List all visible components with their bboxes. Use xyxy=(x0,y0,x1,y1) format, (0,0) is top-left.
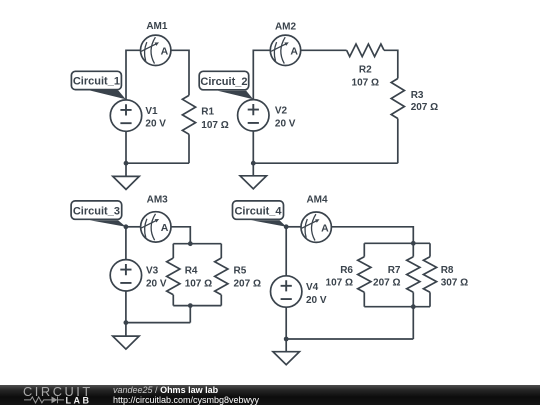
svg-text:A: A xyxy=(161,222,169,234)
svg-text:AM1: AM1 xyxy=(146,21,168,32)
wire: R5 top lead xyxy=(220,244,222,258)
wire: circuit1 ground stub xyxy=(125,163,127,176)
footer bar xyxy=(0,385,540,405)
wire: R7 bottom lead xyxy=(412,292,414,306)
wire: riser from bottom rail to circuit3 bottom wire xyxy=(189,306,191,323)
wire: R4 bottom lead xyxy=(172,295,174,306)
svg-text:Circuit_2: Circuit_2 xyxy=(200,76,247,88)
wire: R1 bottom lead xyxy=(188,134,190,163)
svg-text:Circuit_4: Circuit_4 xyxy=(234,205,282,217)
wire: V4 bottom lead xyxy=(285,307,287,339)
svg-text:107 Ω: 107 Ω xyxy=(326,278,353,289)
svg-text:Circuit_1: Circuit_1 xyxy=(73,76,120,88)
svg-text:20 V: 20 V xyxy=(306,295,327,306)
svg-text:AM4: AM4 xyxy=(306,195,328,206)
ammeter AM3 xyxy=(141,195,171,243)
svg-text:V1: V1 xyxy=(145,106,158,117)
resistor R2 (107 Ω) xyxy=(347,44,384,89)
svg-text:107 Ω: 107 Ω xyxy=(185,279,212,290)
wire: R2 right to corner down to R3 top xyxy=(384,50,398,78)
ammeter AM2 xyxy=(270,22,300,66)
wire: node to V4 top xyxy=(285,227,287,276)
footer text xyxy=(113,385,259,406)
junction: circuit2 bottom node xyxy=(251,161,256,166)
wire: AM1 right to top-right corner down to R1 top xyxy=(171,50,189,95)
junction: circuit4 parallel top node xyxy=(411,241,416,246)
ground (circuit 2) xyxy=(240,176,266,189)
wire: parallel top rail R6-R7-R8 xyxy=(364,242,430,244)
wire: V1 top to top-left corner to AM1 left xyxy=(126,50,141,100)
svg-text:V4: V4 xyxy=(306,282,319,293)
wire: R6 top lead xyxy=(363,243,365,256)
svg-text:R3: R3 xyxy=(411,90,424,101)
resistor R4 (107 Ω) xyxy=(167,258,212,295)
svg-text:107 Ω: 107 Ω xyxy=(352,78,379,89)
svg-text:V2: V2 xyxy=(275,106,288,117)
wire: R3 bottom lead xyxy=(397,119,399,164)
junction: circuit3 bottom-left node xyxy=(124,320,129,325)
ammeter AM4 xyxy=(301,195,331,243)
node label Circuit_3 xyxy=(71,201,126,227)
svg-text:R5: R5 xyxy=(234,265,247,276)
voltage source V4 (20 V) xyxy=(271,276,327,307)
svg-text:20 V: 20 V xyxy=(146,278,167,289)
wire: V3 bottom lead xyxy=(125,291,127,323)
wire: R4 top lead xyxy=(172,244,174,258)
svg-text:307 Ω: 307 Ω xyxy=(441,278,468,289)
ground (circuit 4) xyxy=(273,352,299,365)
svg-text:207 Ω: 207 Ω xyxy=(411,102,438,113)
svg-text:AM3: AM3 xyxy=(147,195,169,206)
CircuitLab logo xyxy=(0,385,100,405)
voltage source V3 (20 V) xyxy=(110,260,167,291)
wire: R7 top lead xyxy=(412,243,414,256)
node label Circuit_4 xyxy=(233,201,287,227)
resistor R8 (307 Ω) xyxy=(423,257,468,293)
junction: circuit3 parallel bottom node xyxy=(188,303,193,308)
resistor R3 (207 Ω) xyxy=(391,79,438,119)
wire: parallel bottom rail R4-R5 xyxy=(173,305,221,307)
svg-text:107 Ω: 107 Ω xyxy=(201,120,228,131)
wire: circuit3 bottom rail xyxy=(126,322,190,324)
svg-text:A: A xyxy=(321,223,329,235)
wire: AM3 right to corner down to parallel top rail xyxy=(171,227,190,244)
svg-text:A: A xyxy=(161,46,169,58)
junction: circuit4 top-left node xyxy=(284,224,289,229)
resistor R6 (107 Ω) xyxy=(326,257,371,293)
wire: circuit4 bottom rail xyxy=(286,338,413,340)
svg-text:V3: V3 xyxy=(146,266,159,277)
node label Circuit_1 xyxy=(71,71,125,99)
wire: V2 top to top-left corner to AM2 left xyxy=(253,50,270,99)
junction: circuit4 parallel bottom node xyxy=(411,304,416,309)
svg-text:20 V: 20 V xyxy=(275,118,296,129)
svg-text:AM2: AM2 xyxy=(275,22,297,33)
wire: circuit2 bottom rail xyxy=(253,162,397,164)
svg-text:R4: R4 xyxy=(185,265,198,276)
wire: V1 bottom lead xyxy=(125,131,127,163)
svg-text:Circuit_3: Circuit_3 xyxy=(73,205,120,217)
node label Circuit_2 xyxy=(199,71,253,99)
svg-text:R1: R1 xyxy=(201,107,214,118)
svg-text:R6: R6 xyxy=(340,265,353,276)
wire: circuit1 bottom rail xyxy=(126,162,189,164)
svg-text:R8: R8 xyxy=(441,265,454,276)
junction: circuit1 bottom node xyxy=(124,161,129,166)
resistor R5 (207 Ω) xyxy=(215,258,261,295)
wire: V2 bottom lead xyxy=(252,131,254,163)
svg-text:R7: R7 xyxy=(388,265,401,276)
wire: AM4 right to corner down to parallel top rail xyxy=(331,227,413,244)
voltage source V2 (20 V) xyxy=(238,100,296,131)
wire: circuit4 ground stub xyxy=(285,339,287,352)
resistor R1 (107 Ω) xyxy=(182,95,228,134)
svg-text:207 Ω: 207 Ω xyxy=(234,279,261,290)
wire: parallel bottom rail R6-R7-R8 xyxy=(364,306,430,308)
wire: R8 top lead xyxy=(429,243,431,256)
wire: circuit3 ground stub xyxy=(125,323,127,337)
ground (circuit 3) xyxy=(113,336,139,349)
svg-text:207 Ω: 207 Ω xyxy=(373,278,400,289)
svg-text:20 V: 20 V xyxy=(145,119,166,130)
ammeter AM1 xyxy=(141,21,171,65)
wire: riser from parallel bottom to circuit4 bottom wire xyxy=(412,307,414,339)
wire: node to AM4 left xyxy=(286,226,301,228)
wire: node to V3 top xyxy=(125,227,127,260)
wire: node to AM3 left xyxy=(126,226,141,228)
wire: parallel top rail R4-R5 xyxy=(173,243,221,245)
wire: R6 bottom lead xyxy=(363,292,365,306)
wire: R5 bottom lead xyxy=(220,295,222,306)
ground (circuit 1) xyxy=(113,176,139,189)
wire: AM2 right to R2 left lead xyxy=(301,49,347,51)
resistor R7 (207 Ω) xyxy=(373,257,420,293)
junction: circuit3 parallel top node xyxy=(188,241,193,246)
svg-text:A: A xyxy=(290,46,298,58)
junction: circuit3 top-left node xyxy=(124,224,129,229)
voltage source V1 (20 V) xyxy=(110,100,166,131)
wire: circuit2 ground stub xyxy=(252,163,254,176)
svg-text:R2: R2 xyxy=(359,65,372,76)
junction: circuit4 bottom-left node xyxy=(284,337,289,342)
wire: R8 bottom lead xyxy=(429,292,431,306)
svg-text:LAB: LAB xyxy=(66,396,92,405)
